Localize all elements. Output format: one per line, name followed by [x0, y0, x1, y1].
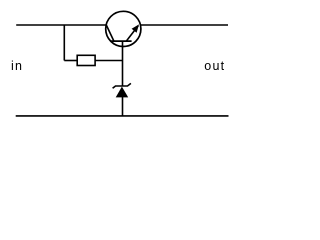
wire resistor to base node — [95, 60, 122, 62]
transistor base lead (down to zener) — [122, 41, 124, 86]
resistor R1 — [77, 55, 95, 65]
transistor base bar — [111, 40, 132, 42]
zener diode triangle — [116, 87, 129, 98]
node label: out — [204, 59, 225, 73]
zener diode lead to bottom rail — [122, 97, 124, 116]
wire top-left (in rail to collector) — [16, 24, 106, 26]
wire vertical drop from top rail — [63, 25, 65, 61]
wire to resistor left terminal — [64, 60, 77, 62]
node label: in — [11, 59, 23, 73]
transistor collector line — [106, 25, 114, 41]
transistor emitter line — [126, 26, 138, 41]
transistor emitter arrowhead — [132, 24, 139, 32]
transistor Q1 — [106, 11, 141, 46]
zener diode D1 cathode bar — [113, 83, 131, 88]
bottom rail wire — [16, 115, 229, 117]
wire top-right (emitter to out rail) — [140, 24, 228, 26]
